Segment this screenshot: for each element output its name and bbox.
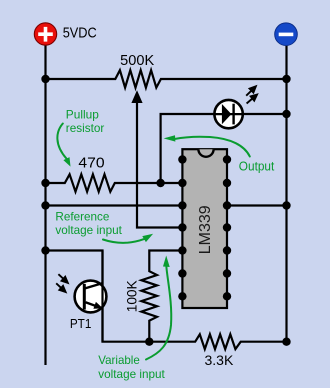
svg-text:Variable: Variable bbox=[98, 353, 140, 367]
svg-text:100K: 100K bbox=[123, 280, 139, 313]
svg-text:resistor: resistor bbox=[66, 121, 105, 135]
svg-text:Output: Output bbox=[239, 159, 275, 174]
svg-text:Reference: Reference bbox=[55, 209, 109, 223]
svg-text:PT1: PT1 bbox=[70, 316, 92, 331]
svg-text:Pullup: Pullup bbox=[66, 108, 99, 122]
svg-text:voltage input: voltage input bbox=[55, 223, 122, 237]
svg-text:5VDC: 5VDC bbox=[63, 24, 97, 41]
svg-text:voltage input: voltage input bbox=[98, 367, 165, 381]
svg-text:470: 470 bbox=[78, 154, 104, 171]
svg-text:LM339: LM339 bbox=[197, 205, 214, 254]
svg-text:500K: 500K bbox=[120, 53, 154, 69]
svg-text:3.3K: 3.3K bbox=[205, 352, 234, 368]
